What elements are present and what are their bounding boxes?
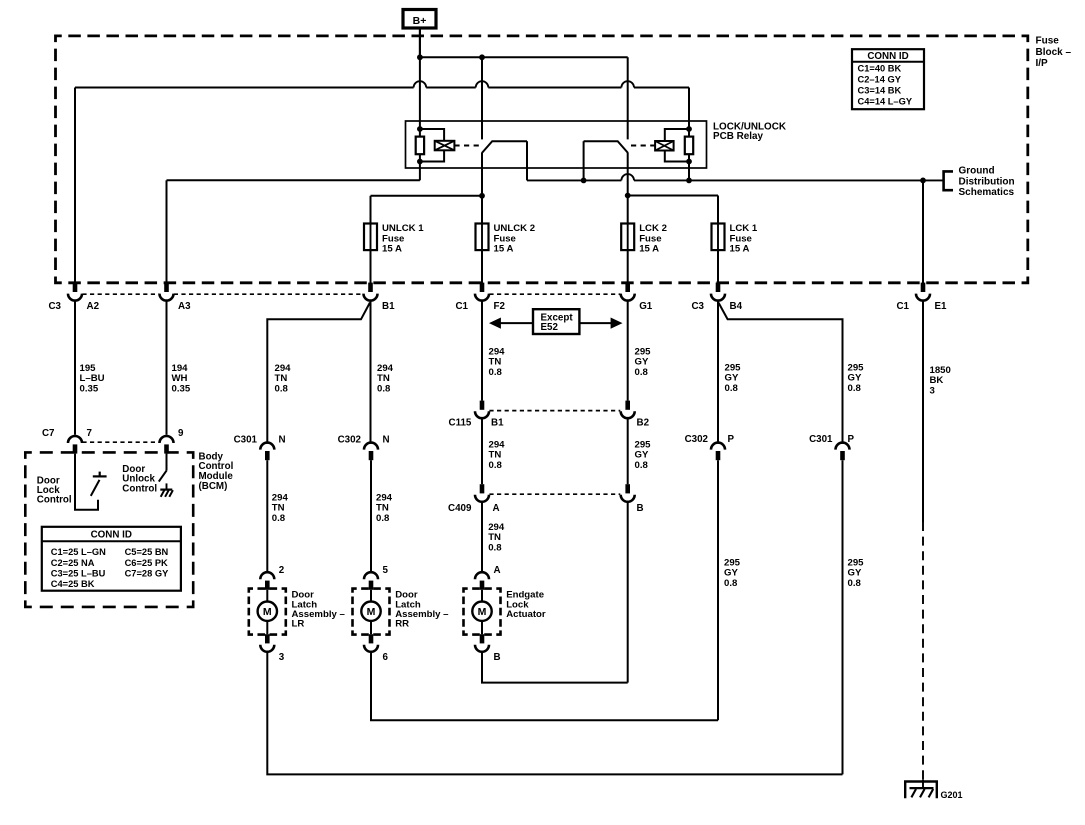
- wire 194 WH (A3 to BCM pin9): [166, 301, 168, 435]
- switch Door Lock Control blade: [91, 480, 100, 496]
- connector C302 P: [711, 443, 725, 450]
- motor assembly box Door Latch LR: [249, 589, 286, 635]
- wire G1 down to C115 B2: [627, 301, 629, 401]
- bracket Ground Distribution Schematics: [944, 171, 953, 190]
- wire A3 to K1 coil y180: [167, 179, 420, 181]
- junction ground rail at E1 drop: [920, 178, 926, 184]
- wire Door Latch RR motor to pin6: [370, 621, 372, 634]
- junction K2 common: [625, 193, 631, 199]
- svg-text:Control: Control: [37, 495, 72, 506]
- switch Door Unlock Control blade: [166, 454, 168, 471]
- dotted connector face C115: [489, 410, 620, 412]
- table CONN ID fuse block: [852, 49, 924, 109]
- wire B1 down to C302 N: [370, 301, 372, 444]
- svg-text:C1=25 L–GN: C1=25 L–GN: [51, 547, 106, 557]
- svg-text:C409: C409: [448, 503, 472, 514]
- wire fuse to connector: [370, 250, 372, 283]
- connector BCM C7 pin 7: [68, 436, 82, 443]
- svg-text:G201: G201: [941, 790, 963, 800]
- svg-text:C3: C3: [691, 301, 704, 312]
- svg-text:C301: C301: [809, 434, 833, 445]
- wire K2 coil loop bottom: [665, 151, 689, 162]
- svg-text:A: A: [493, 503, 500, 514]
- svg-text:A2: A2: [87, 301, 100, 312]
- svg-text:M: M: [367, 606, 376, 618]
- wire A2 riser: [74, 88, 76, 284]
- junction ground rail at K2 coil: [686, 178, 692, 184]
- dotted connector face row1 A2-A3-B1: [82, 293, 159, 295]
- wire A3 riser: [166, 180, 168, 283]
- wire K1 common down: [481, 152, 483, 196]
- fuse UNLCK 1 15A: [364, 224, 377, 251]
- svg-text:0.8: 0.8: [275, 383, 289, 394]
- junction B+ at x482: [479, 54, 485, 60]
- svg-text:CONN ID: CONN ID: [867, 51, 908, 62]
- wire K1 coil loop bottom: [420, 150, 444, 161]
- fuse UNLCK 2 15A: [476, 224, 489, 251]
- wire C115 B2 to C409 B: [627, 417, 629, 484]
- coil K1 (unlock relay coil): [435, 141, 455, 151]
- junction K1 common: [479, 193, 485, 199]
- svg-text:B1: B1: [491, 418, 504, 429]
- wire C115 B1 to C409 A: [481, 417, 483, 484]
- wire K2 common down: [627, 152, 629, 195]
- svg-text:C3=14 BK: C3=14 BK: [858, 85, 902, 95]
- switch K1 armature blade: [482, 141, 527, 152]
- wire Door Latch LR pin2 to motor: [266, 590, 268, 602]
- connector fuse block pin F2: [480, 283, 485, 292]
- svg-text:CONN ID: CONN ID: [91, 530, 132, 541]
- svg-text:C1: C1: [455, 301, 468, 312]
- svg-text:0.8: 0.8: [635, 367, 649, 378]
- svg-text:G1: G1: [639, 301, 653, 312]
- connector fuse block pin A2: [73, 283, 78, 292]
- svg-text:6: 6: [383, 652, 389, 663]
- junction ground rail at K2 NC: [581, 178, 587, 184]
- wire C409 B down to elbow: [627, 501, 629, 683]
- svg-text:15 A: 15 A: [382, 244, 402, 255]
- svg-text:B: B: [494, 652, 501, 663]
- wire LCK2 fuse drop: [627, 196, 629, 224]
- wire unlock fuses feed y195: [371, 195, 483, 197]
- connector Door Latch RR pin 6: [369, 634, 374, 643]
- wire K2 fixed contact from B+: [627, 57, 629, 139]
- wire K1 NC drop to ground rail: [526, 141, 528, 180]
- wire endgate B return: [482, 651, 628, 683]
- svg-text:0.35: 0.35: [80, 383, 99, 394]
- svg-text:P: P: [728, 434, 735, 445]
- wire Door Latch LR motor to pin3: [266, 621, 268, 634]
- connector Door Latch LR pin 3: [265, 634, 270, 643]
- wire UNLCK2 fuse drop: [481, 196, 483, 224]
- wire K1 to A3 line: [419, 162, 421, 181]
- wire latch RR pin6 return: [371, 651, 718, 721]
- wire C301 N to door latch LR pin2: [266, 460, 268, 573]
- svg-text:2: 2: [279, 565, 285, 576]
- wire 1850 BK dashed to G201: [922, 522, 924, 779]
- wire B+ down: [419, 28, 421, 57]
- wire Door Latch RR pin5 to motor: [370, 590, 372, 602]
- wire K1 fixed contact from B+: [481, 57, 483, 139]
- svg-text:N: N: [383, 435, 390, 446]
- svg-text:C7=28 GY: C7=28 GY: [125, 568, 169, 578]
- svg-text:C301: C301: [234, 435, 258, 446]
- wire fuse to connector: [717, 250, 719, 283]
- junction B+ at x420: [417, 54, 423, 60]
- junction K1 coil top: [417, 126, 423, 132]
- dashed link K2 coil-armature: [631, 145, 655, 147]
- svg-text:M: M: [478, 606, 487, 618]
- motor M Door Latch RR: [361, 602, 380, 621]
- fuse LCK 1 15A: [712, 224, 725, 251]
- wire fuse to connector: [627, 250, 629, 283]
- wire LCK1 fuse drop: [717, 196, 719, 224]
- connector fuse block pin E1: [921, 283, 926, 292]
- wire fuse to connector: [481, 250, 483, 283]
- wire lock fuses feed y195: [628, 195, 718, 197]
- svg-text:0.8: 0.8: [725, 383, 739, 394]
- svg-text:B1: B1: [382, 301, 395, 312]
- junction K2 coil top: [686, 126, 692, 132]
- svg-text:0.8: 0.8: [489, 367, 503, 378]
- wire C302 N to door latch RR pin5: [370, 460, 372, 573]
- node B+ power feed: [403, 10, 436, 29]
- wire ground rail y180: [527, 174, 943, 180]
- switch K2 armature blade: [584, 141, 628, 152]
- connector C302 N: [364, 443, 378, 450]
- wire K2 NC drop to ground rail: [583, 141, 585, 180]
- svg-text:0.8: 0.8: [848, 578, 862, 589]
- svg-text:B+: B+: [413, 15, 427, 27]
- svg-text:15 A: 15 A: [494, 244, 514, 255]
- svg-text:0.35: 0.35: [172, 383, 191, 394]
- svg-text:RR: RR: [395, 619, 409, 630]
- wire latch LR pin3 return: [267, 651, 842, 775]
- svg-text:PCB Relay: PCB Relay: [713, 131, 763, 142]
- dashed link K1 coil-armature: [454, 145, 480, 147]
- svg-text:C3=25 L–BU: C3=25 L–BU: [51, 568, 106, 578]
- svg-text:C4=14 L–GY: C4=14 L–GY: [858, 96, 913, 106]
- table CONN ID BCM: [42, 527, 181, 591]
- svg-text:A: A: [494, 565, 501, 576]
- svg-text:E52: E52: [541, 322, 559, 333]
- svg-text:9: 9: [178, 428, 184, 439]
- svg-text:7: 7: [87, 428, 93, 439]
- coil K2 (lock relay coil): [655, 141, 674, 151]
- wire rail y87 with hops: [75, 81, 689, 87]
- svg-text:C302: C302: [685, 434, 709, 445]
- svg-text:C5=25 BN: C5=25 BN: [125, 547, 169, 557]
- svg-text:B4: B4: [730, 301, 743, 312]
- motor M Endgate Lock Actuator: [472, 602, 491, 621]
- svg-text:C4=25 BK: C4=25 BK: [51, 579, 95, 589]
- wire B1 branch to C301 N: [267, 303, 370, 444]
- motor assembly box Endgate Lock Actuator: [464, 589, 501, 635]
- wire F2 down to C115 B1: [481, 301, 483, 401]
- motor M Door Latch LR: [258, 602, 277, 621]
- wire Endgate Lock Actuator pinA to motor: [481, 590, 483, 602]
- ground G201 bar: [910, 787, 934, 789]
- svg-text:LR: LR: [292, 619, 305, 630]
- svg-text:C302: C302: [338, 435, 362, 446]
- junction K2 coil bottom: [686, 159, 692, 165]
- svg-text:F2: F2: [494, 301, 506, 312]
- svg-text:0.8: 0.8: [272, 513, 286, 524]
- wire 195 L-BU (A2 to BCM pin7): [74, 301, 76, 435]
- svg-text:0.8: 0.8: [724, 578, 738, 589]
- svg-text:C2=25 NA: C2=25 NA: [51, 558, 95, 568]
- svg-text:0.8: 0.8: [635, 460, 649, 471]
- wire lock-coil feed drop x689: [688, 88, 690, 137]
- svg-text:C7: C7: [42, 428, 55, 439]
- connector C115 B2: [625, 401, 630, 410]
- fuse block I/P dashed border: [56, 36, 1028, 283]
- svg-text:15 A: 15 A: [730, 244, 750, 255]
- svg-text:Schematics: Schematics: [959, 187, 1015, 198]
- svg-text:3: 3: [930, 385, 935, 396]
- connector fuse block pin G1: [625, 283, 630, 292]
- svg-text:Block –: Block –: [1036, 47, 1072, 58]
- connector C115 B1: [480, 401, 485, 410]
- resistor K1: [416, 137, 424, 155]
- svg-text:B2: B2: [637, 418, 650, 429]
- svg-text:Control: Control: [122, 483, 157, 494]
- wire UNLCK1 fuse drop: [370, 196, 372, 224]
- svg-text:N: N: [279, 435, 286, 446]
- svg-text:C1=40 BK: C1=40 BK: [858, 63, 902, 73]
- dotted connector face C409: [489, 493, 620, 495]
- wire C301 P down: [842, 460, 844, 774]
- wire C302 P down: [717, 460, 719, 720]
- ground G201 hatches: [911, 789, 916, 797]
- svg-text:A3: A3: [178, 301, 191, 312]
- wire Endgate Lock Actuator motor to pinB: [481, 621, 483, 634]
- arrow Except E52 right: [579, 322, 611, 324]
- svg-text:0.8: 0.8: [377, 383, 391, 394]
- svg-text:0.8: 0.8: [376, 513, 390, 524]
- connector fuse block pin A3: [164, 283, 169, 292]
- svg-text:C2–14 GY: C2–14 GY: [858, 74, 902, 84]
- wire K2 coil loop top: [665, 129, 689, 141]
- wire C409 A to endgate pinA: [481, 501, 483, 573]
- relay box LOCK/UNLOCK PCB Relay: [406, 121, 707, 168]
- box Except E52: [533, 309, 579, 334]
- connector fuse block pin B4: [716, 283, 721, 292]
- wire 1850 BK (E1 down, solid part): [922, 301, 924, 522]
- dotted connector face BCM 7-9: [82, 441, 159, 443]
- svg-text:B: B: [637, 503, 644, 514]
- junction K1 coil bottom: [417, 159, 423, 165]
- svg-text:M: M: [263, 606, 272, 618]
- ground G201 bracket: [905, 782, 937, 799]
- svg-text:Actuator: Actuator: [506, 609, 546, 620]
- svg-text:C3: C3: [48, 301, 61, 312]
- svg-text:I/P: I/P: [1036, 58, 1049, 69]
- wire B4 down to C302 P: [717, 301, 719, 444]
- connector Door Latch RR pin 5: [364, 572, 378, 579]
- wire K1 below resistor: [419, 154, 421, 161]
- svg-text:C6=25 PK: C6=25 PK: [125, 558, 168, 568]
- wire K1 coil feed x420: [419, 28, 421, 137]
- connector C301 P: [836, 443, 850, 450]
- connector BCM pin 9: [160, 436, 174, 443]
- svg-text:Distribution: Distribution: [959, 176, 1015, 187]
- wire B+ rail y57: [420, 56, 628, 58]
- svg-text:P: P: [848, 434, 855, 445]
- connector C301 N: [260, 443, 274, 450]
- svg-text:Fuse: Fuse: [1036, 36, 1060, 47]
- resistor K2: [685, 137, 693, 155]
- motor assembly box Door Latch RR: [353, 589, 390, 635]
- svg-text:0.8: 0.8: [489, 460, 503, 471]
- svg-text:Ground: Ground: [959, 166, 995, 177]
- connector fuse block pin B1: [368, 283, 373, 292]
- svg-text:15 A: 15 A: [639, 244, 659, 255]
- svg-text:5: 5: [383, 565, 389, 576]
- wire K1 coil loop top: [420, 129, 444, 141]
- connector C409 B: [625, 484, 630, 493]
- svg-text:0.8: 0.8: [488, 542, 502, 553]
- connector Door Latch LR pin 2: [260, 572, 274, 579]
- svg-text:C115: C115: [449, 418, 472, 429]
- ground G201 wire tail: [922, 779, 924, 788]
- connector Endgate Lock Actuator pin A: [475, 572, 489, 579]
- ground chassis (BCM unlock): [166, 483, 168, 489]
- wire K2 below resistor: [688, 154, 690, 180]
- connector C409 A: [480, 484, 485, 493]
- wire E1 drop from ground rail: [922, 180, 924, 283]
- svg-text:3: 3: [279, 652, 285, 663]
- connector Endgate Lock Actuator pin B: [480, 634, 485, 643]
- svg-text:E1: E1: [935, 301, 948, 312]
- switch Door Lock Control contact: [75, 454, 98, 510]
- fuse LCK 2 15A: [621, 224, 634, 251]
- svg-text:(BCM): (BCM): [199, 481, 228, 492]
- BCM dashed box: [25, 452, 193, 607]
- svg-text:C1: C1: [896, 301, 909, 312]
- svg-text:0.8: 0.8: [848, 383, 862, 394]
- dotted connector face row1 F2-G1: [489, 293, 620, 295]
- wire B4 branch to C301 P: [719, 303, 843, 444]
- arrow Except E52 left: [501, 322, 534, 324]
